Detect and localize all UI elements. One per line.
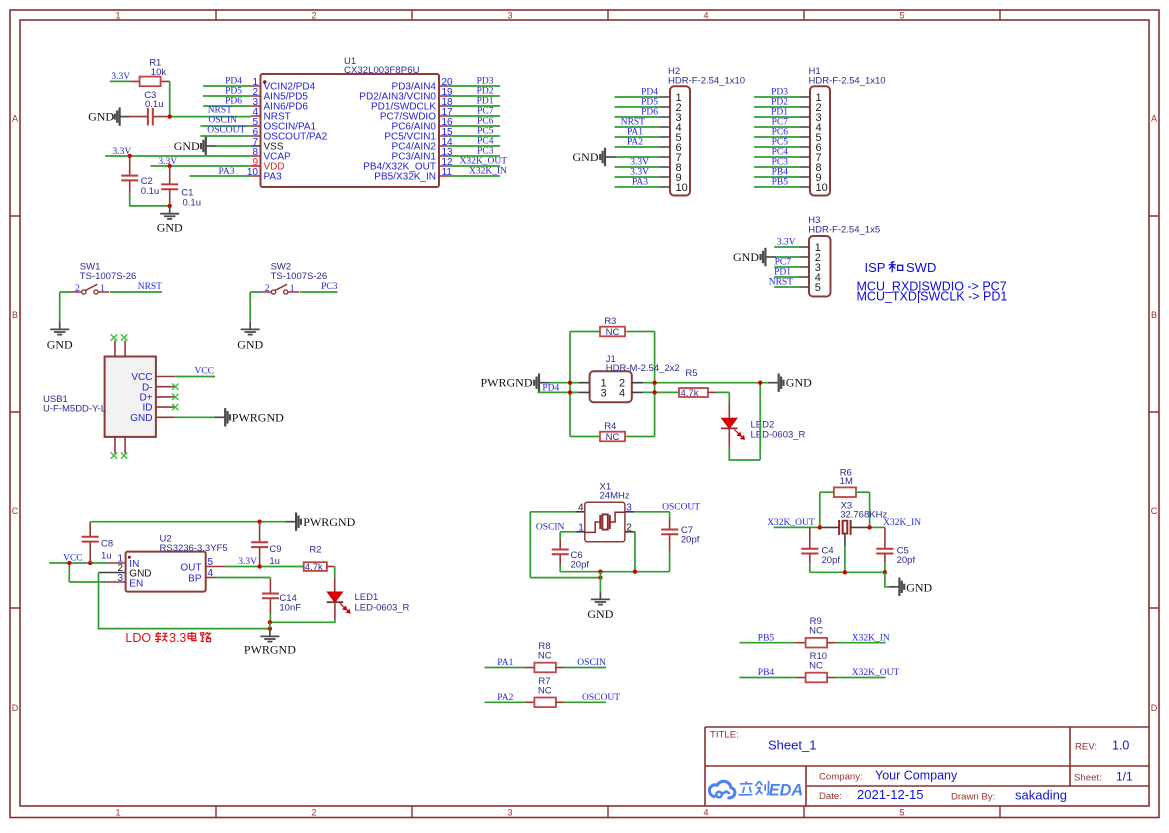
svg-text:MCU_TXD|SWCLK -> PD1: MCU_TXD|SWCLK -> PD1 [857, 290, 1008, 304]
svg-text:PC7: PC7 [477, 107, 494, 117]
svg-text:1/1: 1/1 [1116, 770, 1133, 784]
wire top rail to PWRGND [90, 521, 286, 523]
resistor R2 [304, 562, 335, 571]
svg-text:D: D [12, 703, 19, 713]
svg-text:X32K_OUT: X32K_OUT [460, 157, 508, 167]
svg-text:PC3: PC3 [477, 147, 494, 157]
no-connect marks top shell [111, 334, 128, 340]
svg-text:X32K_IN: X32K_IN [852, 633, 890, 643]
svg-text:sakading: sakading [1015, 788, 1067, 803]
junction node GND loop [268, 626, 272, 630]
svg-text:LDO: LDO [125, 631, 151, 645]
wire U2 GND loop [99, 573, 270, 629]
svg-text:20pf: 20pf [897, 555, 916, 566]
svg-text:4: 4 [619, 387, 625, 399]
wire J1 right loop [654, 332, 656, 437]
svg-text:20pf: 20pf [681, 534, 700, 545]
svg-text:REV:: REV: [1075, 742, 1097, 753]
svg-text:3.3V: 3.3V [111, 72, 130, 82]
U2 pin numbers [117, 554, 213, 584]
svg-text:BP: BP [188, 573, 202, 584]
switch SW2 [260, 284, 299, 294]
capacitor C3 [130, 108, 168, 125]
wire 3.3V to R1 [110, 80, 131, 82]
svg-text:VCC: VCC [63, 554, 83, 564]
capacitor C9 [251, 522, 268, 567]
wire J1 pin2 to GND [643, 382, 768, 384]
X1 pin numbers [578, 502, 632, 533]
LED LED2 [721, 418, 744, 439]
svg-text:PD3: PD3 [771, 88, 788, 98]
svg-text:OSCOUT: OSCOUT [662, 503, 700, 513]
junction node C14/LED1 [268, 620, 272, 624]
svg-text:24MHz: 24MHz [600, 491, 630, 502]
svg-text:GND: GND [88, 110, 114, 124]
svg-text:TS-1007S-26: TS-1007S-26 [271, 271, 328, 282]
H1 pin numbers [816, 92, 828, 194]
J1 pin numbers [601, 378, 626, 400]
header H2 body [670, 86, 690, 195]
svg-text:OUT: OUT [180, 562, 201, 573]
svg-text:C: C [1151, 506, 1158, 516]
junction nodes J1 right [652, 381, 656, 395]
svg-text:4.7k: 4.7k [305, 562, 323, 573]
resistor R10 [739, 673, 885, 683]
svg-text:PWRGND: PWRGND [232, 410, 284, 424]
svg-text:X32K_OUT: X32K_OUT [852, 668, 900, 678]
junction node 3.3V/C2 [128, 154, 132, 158]
svg-text:R4: R4 [604, 421, 616, 432]
svg-text:GND: GND [237, 338, 263, 352]
net PD4 wire to J1 pin3 [538, 391, 579, 393]
svg-text:X32K_IN: X32K_IN [469, 167, 507, 177]
ground symbol PWRGND bottom [244, 629, 296, 657]
wire R5 to LED2 [728, 402, 730, 418]
svg-text:HDR-M-2.54_2x2: HDR-M-2.54_2x2 [606, 363, 680, 374]
J1 pin stubs [578, 383, 643, 393]
U2 pin stubs [105, 563, 225, 582]
net 3.3V wire to U1 VDD [150, 165, 250, 167]
capacitor C2 [121, 156, 170, 206]
svg-text:Drawn By:: Drawn By: [951, 792, 995, 803]
net X32K_OUT wire [774, 526, 820, 528]
svg-text:3: 3 [117, 573, 123, 584]
wire X1 pin4 to outer rail [530, 512, 600, 578]
svg-text:32.768KHz: 32.768KHz [840, 509, 887, 520]
svg-text:PA1: PA1 [627, 128, 643, 138]
svg-text:RS3236-3.3YF5: RS3236-3.3YF5 [160, 543, 228, 554]
svg-text:4: 4 [208, 568, 214, 579]
svg-text:20pf: 20pf [571, 559, 590, 570]
ground flag GND at J1 [768, 374, 812, 392]
svg-text:3.3V: 3.3V [238, 557, 257, 567]
svg-text:LED-0603_R: LED-0603_R [751, 430, 806, 441]
power flag PWRGND top [286, 513, 356, 531]
svg-text:1: 1 [100, 284, 105, 294]
svg-text:20pf: 20pf [822, 555, 841, 566]
svg-text:NC: NC [809, 661, 823, 672]
LED2 cathode return wire [729, 383, 760, 460]
svg-text:SWD: SWD [906, 260, 936, 275]
svg-text:PB5: PB5 [772, 178, 789, 188]
svg-text:PWRGND: PWRGND [303, 515, 355, 529]
no-connect marks bottom shell [111, 452, 128, 458]
H1 pin wires [754, 97, 800, 187]
svg-text:1: 1 [115, 10, 120, 20]
svg-text:PD3: PD3 [477, 77, 494, 87]
wire X1 rail to ground [599, 572, 601, 592]
wire R2 to LED1 [334, 567, 336, 593]
junction node C1/C2/GND [168, 204, 172, 208]
svg-text:PA3: PA3 [264, 172, 283, 183]
wire SW2 pin2 to ground [250, 292, 260, 322]
svg-text:C: C [12, 506, 19, 516]
svg-text:U-F-M5DD-Y-L: U-F-M5DD-Y-L [43, 404, 106, 415]
note text ISP and SWD [865, 260, 937, 275]
net 3.3V wire to U1 VCAP [105, 155, 251, 157]
net NRST wire from SW1 [110, 291, 162, 293]
svg-text:PB5/X32K_IN: PB5/X32K_IN [374, 172, 436, 183]
H2 pin numbers [676, 92, 688, 194]
switch SW1 [70, 284, 109, 294]
junction node VCC/C8 [88, 561, 92, 565]
wire BP to C14 [217, 578, 270, 594]
LCEDA logo text LiChuang [739, 781, 769, 795]
junction node VCC/EN [67, 561, 71, 565]
svg-text:5: 5 [899, 10, 904, 20]
svg-text:0.1u: 0.1u [183, 198, 202, 209]
svg-text:TS-1007S-26: TS-1007S-26 [80, 271, 137, 282]
X1 inner ground rail [560, 571, 669, 573]
H3 pin numbers [815, 242, 821, 294]
svg-text:3.3: 3.3 [169, 631, 186, 645]
U2 GND pin stub [99, 572, 126, 574]
svg-text:OSCOUT: OSCOUT [207, 126, 245, 136]
wire USB1 GND to PWRGND [175, 416, 216, 418]
wires OSCIN OSCOUT to U1 [200, 126, 250, 136]
resistor R1 [130, 77, 169, 87]
svg-text:PD5: PD5 [225, 87, 242, 97]
svg-text:PC5: PC5 [477, 127, 494, 137]
svg-text:10: 10 [816, 182, 828, 194]
net VCC wire from USB1 [175, 376, 216, 378]
junction node NRST/C3/R1 [168, 114, 172, 118]
svg-text:OSCIN: OSCIN [208, 116, 237, 126]
LED1 cathode wire [270, 602, 335, 622]
svg-text:HDR-F-2.54_1x10: HDR-F-2.54_1x10 [809, 76, 886, 87]
svg-text:3: 3 [507, 10, 512, 20]
svg-text:PC5: PC5 [772, 138, 789, 148]
svg-text:Sheet:: Sheet: [1074, 773, 1102, 784]
U1 right net labels [460, 77, 508, 177]
svg-text:PB4: PB4 [772, 168, 789, 178]
svg-text:PC3: PC3 [321, 282, 338, 292]
svg-text:PA1: PA1 [497, 658, 513, 668]
net OSCOUT wire from X1 pin3 [634, 511, 670, 513]
svg-text:R3: R3 [604, 316, 616, 327]
svg-text:X32K_IN: X32K_IN [883, 518, 921, 528]
wire R6 right leg [869, 492, 871, 527]
ground symbol GND at X1 [587, 592, 613, 621]
svg-text:R2: R2 [309, 545, 321, 556]
resistor R6 [820, 487, 870, 497]
svg-text:GND: GND [174, 139, 200, 153]
svg-text:GND: GND [573, 150, 599, 164]
svg-text:1: 1 [115, 807, 120, 817]
svg-text:PD4: PD4 [542, 383, 559, 393]
H3 pin wires [774, 247, 799, 287]
frame zone numbers top [115, 10, 904, 20]
ground flag GND at C3 [88, 107, 130, 125]
svg-text:VCC: VCC [194, 366, 214, 376]
svg-text:HDR-F-2.54_1x10: HDR-F-2.54_1x10 [668, 76, 745, 87]
svg-text:1u: 1u [269, 556, 280, 567]
svg-text:Your Company: Your Company [875, 769, 958, 783]
X3 bottom rail [810, 571, 885, 573]
svg-text:2: 2 [311, 807, 316, 817]
svg-text:3: 3 [507, 807, 512, 817]
svg-text:PC6: PC6 [772, 128, 789, 138]
net PC3 wire from SW2 [300, 291, 338, 293]
resistor R7 [485, 698, 607, 708]
svg-text:3.3V: 3.3V [630, 158, 649, 168]
svg-text:D: D [1151, 703, 1158, 713]
svg-text:GND: GND [157, 221, 183, 235]
svg-text:1.0: 1.0 [1112, 739, 1129, 753]
svg-text:0.1u: 0.1u [145, 99, 164, 110]
ground symbol GND below C1 [157, 206, 183, 235]
wire VCC to EN [69, 563, 105, 582]
X1 pin stubs [575, 512, 634, 532]
svg-text:OSCIN: OSCIN [536, 523, 565, 533]
U1 pin stubs [251, 86, 449, 176]
svg-text:PWRGND: PWRGND [244, 643, 296, 657]
wire R6 left leg [819, 492, 821, 527]
header H1 body [810, 86, 830, 195]
svg-text:GND: GND [906, 580, 932, 594]
svg-text:Company:: Company: [819, 772, 863, 783]
H2 pin stubs [660, 97, 670, 187]
ground flag GND at U1 VSS [174, 137, 251, 155]
svg-text:GND: GND [47, 338, 73, 352]
capacitor C6 [552, 532, 569, 572]
no-connect marks D- D+ ID [172, 384, 178, 411]
capacitor C1 [161, 166, 178, 206]
header H3 body [809, 236, 831, 297]
capacitor C7 [661, 512, 678, 572]
svg-text:NC: NC [606, 432, 620, 443]
svg-text:3.3V: 3.3V [630, 168, 649, 178]
svg-text:PD6: PD6 [641, 108, 658, 118]
svg-text:PC7: PC7 [775, 258, 792, 268]
USB connector USB1 body [105, 357, 156, 437]
svg-text:PC4: PC4 [477, 137, 494, 147]
svg-text:OSCOUT: OSCOUT [582, 693, 620, 703]
svg-text:PB4: PB4 [758, 668, 775, 678]
power flag PWRGND at J1 pin1 [480, 374, 578, 392]
LED LED1 [327, 592, 350, 613]
svg-text:OSCIN: OSCIN [577, 658, 606, 668]
svg-text:A: A [1151, 114, 1157, 124]
svg-text:PD1: PD1 [771, 108, 788, 118]
resistor R5 [643, 388, 729, 402]
svg-text:TITLE:: TITLE: [710, 730, 739, 741]
USB1 shell pins bottom [115, 437, 125, 454]
svg-text:GND: GND [587, 607, 613, 621]
ground symbol GND at SW2 [237, 322, 263, 352]
svg-text:A: A [12, 114, 18, 124]
net 3.3V wire from U2 OUT [225, 566, 304, 568]
svg-text:PA2: PA2 [627, 138, 643, 148]
wire SW1 pin2 to ground [60, 292, 71, 322]
svg-text:PD1: PD1 [477, 97, 494, 107]
svg-text:NRST: NRST [769, 278, 793, 288]
ground flag GND at H3 pin2 [733, 248, 776, 266]
junction nodes X1 rail [598, 570, 637, 580]
frame zone letters left [12, 114, 19, 714]
svg-text:EN: EN [129, 578, 143, 589]
crystal X1 body [585, 502, 625, 542]
junction node C5 ground [883, 570, 887, 574]
H3 pin stubs [800, 247, 810, 287]
junction node OUT/C9 [257, 564, 261, 568]
svg-text:NC: NC [538, 685, 552, 696]
net X32K_IN wire [870, 526, 885, 528]
wire junction link [269, 622, 271, 628]
junction node LED2 return [758, 381, 762, 385]
svg-text:GND: GND [130, 413, 152, 424]
svg-text:PD5: PD5 [641, 98, 658, 108]
svg-text:PA3: PA3 [632, 178, 648, 188]
svg-text:B: B [1151, 310, 1157, 320]
resistor R9 [739, 638, 885, 648]
svg-text:5: 5 [815, 282, 821, 294]
svg-text:PD2: PD2 [771, 98, 788, 108]
H2 pin wires [615, 97, 661, 187]
wires PD4 PD5 PD6 to U1 [203, 86, 251, 106]
capacitor C8 [82, 522, 99, 563]
USB1 right pin stubs [156, 377, 175, 418]
wire rail to GND flag [885, 572, 895, 587]
svg-text:CX32L003F8P6U: CX32L003F8P6U [344, 65, 420, 76]
resistor R3 [570, 327, 655, 338]
svg-text:C8: C8 [101, 539, 113, 550]
svg-text:0.1u: 0.1u [141, 186, 160, 197]
U1 pin names [264, 82, 437, 183]
junction node X32K_IN/R6 [867, 525, 871, 529]
capacitor C4 [801, 527, 818, 572]
U1 right side net wires [449, 86, 500, 176]
svg-text:NC: NC [538, 651, 552, 662]
svg-text:1: 1 [290, 284, 295, 294]
svg-text:10nF: 10nF [279, 603, 301, 614]
X1 crystal glyph [585, 512, 625, 532]
svg-text:2021-12-15: 2021-12-15 [857, 787, 924, 802]
junction nodes J1 left [568, 381, 572, 395]
title block outline [705, 727, 1149, 806]
U2 BP pin stub [206, 577, 217, 579]
svg-text:4: 4 [703, 807, 708, 817]
svg-text:HDR-F-2.54_1x5: HDR-F-2.54_1x5 [808, 225, 880, 236]
H1 net labels [771, 88, 788, 188]
svg-text:NC: NC [606, 327, 620, 338]
svg-text:3: 3 [601, 387, 607, 399]
U1 pin numbers [247, 77, 453, 178]
net OSCIN wire to X1 pin1 [560, 531, 576, 533]
svg-text:LED-0603_R: LED-0603_R [355, 602, 410, 613]
svg-text:ISP: ISP [865, 260, 886, 275]
USB1 shell pins top [115, 341, 125, 357]
capacitor C5 [876, 527, 893, 572]
H1 pin stubs [800, 97, 811, 187]
svg-text:PD4: PD4 [225, 77, 242, 87]
capacitor C14 [262, 594, 279, 623]
svg-text:4: 4 [703, 10, 708, 20]
junction node crystal ground [843, 570, 847, 574]
svg-text:R5: R5 [685, 368, 697, 379]
svg-text:NRST: NRST [621, 118, 645, 128]
svg-text:EDA: EDA [769, 782, 803, 800]
svg-text:2: 2 [311, 10, 316, 20]
svg-text:4.7k: 4.7k [681, 388, 699, 399]
svg-text:B: B [12, 310, 18, 320]
svg-text:PC6: PC6 [477, 117, 494, 127]
svg-text:PWRGND: PWRGND [480, 376, 532, 390]
svg-text:10: 10 [676, 182, 688, 194]
wire R1 to NRST node [169, 81, 171, 116]
svg-text:1u: 1u [101, 551, 112, 562]
svg-text:3.3V: 3.3V [777, 238, 796, 248]
resistor R4 [570, 432, 655, 443]
net PA3 wire to U1 pin10 [189, 175, 250, 177]
LCEDA logo cloud [709, 781, 735, 798]
svg-text:10k: 10k [151, 67, 167, 78]
svg-text:PD2: PD2 [477, 87, 494, 97]
svg-text:PA2: PA2 [497, 693, 513, 703]
svg-text:2: 2 [75, 284, 80, 294]
power flag PWRGND at USB1 [215, 408, 284, 426]
wire X1 pin2 drop [634, 532, 636, 572]
crystal X3 [820, 520, 870, 573]
svg-text:NRST: NRST [208, 106, 232, 116]
MCU U1 body [261, 74, 440, 187]
ground flag GND at H2 pin7 [573, 148, 616, 166]
USB1 pin names [130, 372, 152, 424]
junction node X32K_OUT/R6 [818, 525, 822, 529]
header J1 body [590, 371, 632, 402]
svg-text:PC3: PC3 [772, 158, 789, 168]
svg-text:C9: C9 [269, 544, 281, 555]
svg-text:PD1: PD1 [774, 268, 791, 278]
net NRST wire to U1 pin4 [170, 116, 251, 118]
svg-text:5: 5 [899, 807, 904, 817]
svg-text:PC7: PC7 [772, 118, 789, 128]
svg-text:PD4: PD4 [641, 88, 658, 98]
wire J1 left loop [569, 332, 571, 437]
svg-text:PC4: PC4 [772, 148, 789, 158]
svg-text:PA3: PA3 [219, 167, 235, 177]
svg-text:1M: 1M [840, 476, 853, 487]
svg-text:GND: GND [733, 250, 759, 264]
svg-text:PB5: PB5 [758, 633, 775, 643]
svg-text:NC: NC [809, 626, 823, 637]
svg-text:GND: GND [786, 376, 812, 390]
svg-text:2: 2 [265, 284, 270, 294]
ground symbol GND at SW1 [47, 322, 73, 352]
resistor R8 [485, 663, 607, 673]
frame zone letters right [1151, 114, 1158, 714]
junction node 3.3V/C1 [168, 164, 172, 168]
